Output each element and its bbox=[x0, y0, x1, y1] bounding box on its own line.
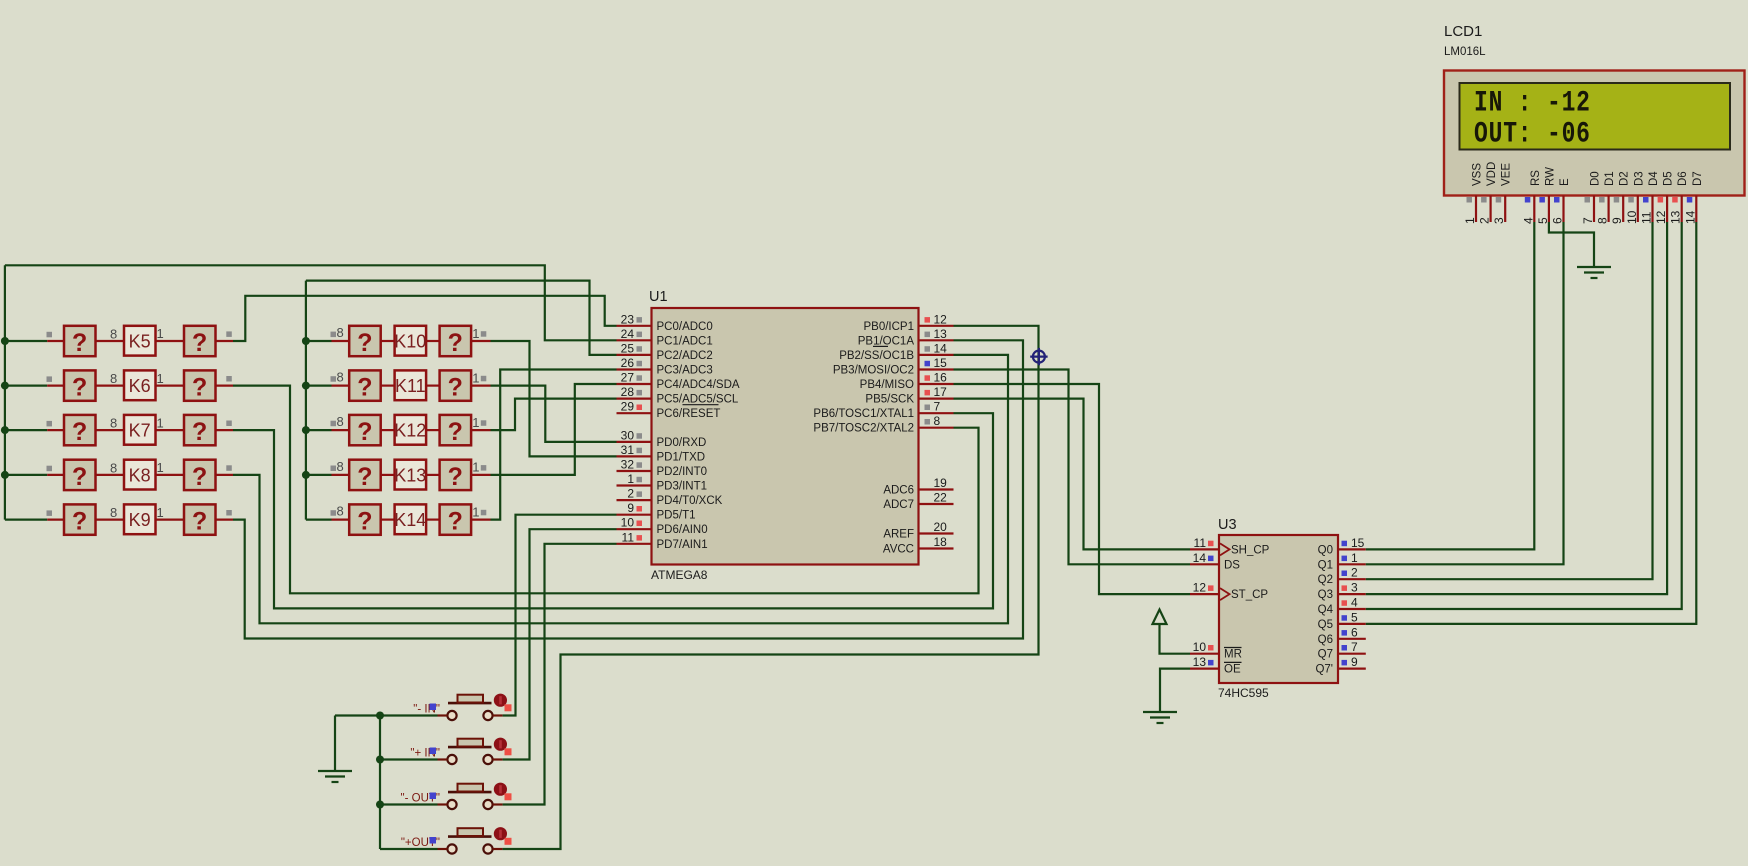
junction button bus bbox=[376, 712, 384, 720]
terminal marker left of K7 bbox=[47, 421, 53, 427]
wire bus2 to K13 row bbox=[306, 474, 332, 476]
svg-text:RS: RS bbox=[1530, 170, 1542, 186]
svg-text:9: 9 bbox=[627, 501, 634, 515]
node button common bus bbox=[379, 716, 381, 850]
svg-text:8: 8 bbox=[110, 416, 117, 431]
U1 pin 27 PC4/ADC4/SDA bbox=[617, 383, 652, 385]
LCD1 pin 5 RW bbox=[1548, 196, 1550, 223]
svg-text:30: 30 bbox=[621, 428, 635, 442]
wire bus2 to U1 pin 25 bbox=[306, 281, 617, 355]
svg-text:Q7': Q7' bbox=[1315, 664, 1333, 676]
svg-text:U3: U3 bbox=[1218, 517, 1237, 533]
svg-text:3: 3 bbox=[1492, 217, 1506, 224]
svg-text:18: 18 bbox=[934, 535, 948, 549]
svg-text:13: 13 bbox=[934, 327, 948, 341]
marker square bbox=[430, 837, 437, 844]
terminal marker left of K14 bbox=[331, 510, 337, 516]
svg-text:15: 15 bbox=[934, 356, 948, 370]
svg-text:ATMEGA8: ATMEGA8 bbox=[651, 568, 708, 582]
U3 pin 3 Q3 bbox=[1338, 593, 1366, 595]
svg-text:22: 22 bbox=[934, 491, 948, 505]
junction bus1 bbox=[1, 337, 9, 345]
svg-text:20: 20 bbox=[934, 520, 948, 534]
wire bus1 to K8 row bbox=[5, 474, 47, 476]
wire bus1 to K5 row bbox=[5, 340, 47, 342]
push button "+ IN" bbox=[448, 746, 492, 749]
svg-text:U1: U1 bbox=[649, 289, 668, 305]
wire K10 internal left bbox=[381, 340, 395, 342]
LCD1 pin 2 VDD bbox=[1489, 196, 1491, 223]
relay K5 output pin stub bbox=[216, 340, 234, 342]
U3 pin 6 Q6 bbox=[1338, 638, 1366, 640]
wire U3 Q2 to LCD D4 bbox=[1366, 222, 1653, 579]
wire U1 pin 15 to U3 DS bbox=[954, 370, 1191, 565]
wire K9 to U1 pin 13 bbox=[233, 340, 1023, 638]
svg-text:LM016L: LM016L bbox=[1444, 46, 1486, 58]
junction bus1 bbox=[1, 382, 9, 390]
LCD1 pin 11 D4 bbox=[1651, 196, 1653, 223]
svg-text:Q6: Q6 bbox=[1318, 634, 1333, 646]
U1 pin 13 PB1/OC1A bbox=[919, 339, 954, 341]
relay K12 bbox=[395, 415, 427, 445]
wire K14 internal right bbox=[426, 518, 440, 520]
svg-text:17: 17 bbox=[934, 385, 948, 399]
svg-text:1: 1 bbox=[472, 326, 479, 341]
svg-text:7: 7 bbox=[1581, 217, 1595, 224]
wire bus to button bbox=[380, 803, 438, 805]
opto element left of K9 bbox=[64, 504, 96, 534]
svg-text:2: 2 bbox=[1351, 566, 1358, 580]
svg-text:K9: K9 bbox=[129, 510, 151, 530]
button right pin stub bbox=[493, 848, 503, 850]
svg-text:1: 1 bbox=[472, 415, 479, 430]
opto element right of K9 bbox=[184, 504, 216, 534]
svg-text:VSS: VSS bbox=[1472, 163, 1484, 186]
svg-text:K11: K11 bbox=[395, 376, 426, 396]
svg-text:DS: DS bbox=[1224, 559, 1240, 571]
svg-text:8: 8 bbox=[110, 505, 117, 520]
relay K10 bbox=[395, 326, 427, 356]
LCD1 pin 12 D5 bbox=[1666, 196, 1668, 223]
relay K14 output pin stub bbox=[471, 518, 490, 520]
relay K6 input pin stub bbox=[47, 385, 64, 387]
relay K7 bbox=[124, 415, 156, 445]
svg-text:PB6/TOSC1/XTAL1: PB6/TOSC1/XTAL1 bbox=[813, 408, 914, 420]
U1 pin 17 PB5/SCK bbox=[919, 398, 954, 400]
svg-text:PC5/ADC5/SCL: PC5/ADC5/SCL bbox=[657, 394, 739, 406]
svg-text:1: 1 bbox=[157, 371, 164, 386]
LCD1 pin 8 D1 bbox=[1607, 196, 1609, 223]
opto element left of K7 bbox=[64, 415, 96, 445]
wire K11 internal left bbox=[381, 385, 395, 387]
U3 pin 1 Q1 bbox=[1338, 563, 1366, 565]
opto element right of K8 bbox=[184, 460, 216, 490]
marker square bbox=[430, 748, 437, 755]
svg-text:K6: K6 bbox=[129, 376, 151, 396]
svg-text:1: 1 bbox=[472, 460, 479, 475]
svg-text:25: 25 bbox=[621, 341, 635, 355]
relay K6 bbox=[124, 370, 156, 400]
svg-text:PC6/RESET: PC6/RESET bbox=[657, 408, 721, 420]
IC U3 body bbox=[1219, 535, 1338, 683]
svg-text:Q2: Q2 bbox=[1318, 574, 1333, 586]
svg-text:K8: K8 bbox=[129, 465, 151, 485]
svg-text:OUT: -06: OUT: -06 bbox=[1474, 117, 1591, 150]
U1 pin 15 PB3/MOSI/OC2 bbox=[919, 368, 954, 370]
svg-text:27: 27 bbox=[621, 371, 635, 385]
junction bus2 bbox=[302, 337, 310, 345]
U1 pin 9 PD5/T1 bbox=[617, 514, 652, 516]
wire bus1 to K6 row bbox=[5, 385, 47, 387]
wire K5 internal right bbox=[156, 340, 185, 342]
U1 pin 18 AVCC bbox=[919, 547, 954, 549]
LCD1 body bbox=[1444, 71, 1745, 196]
svg-text:PD2/INT0: PD2/INT0 bbox=[657, 466, 708, 478]
button left pin stub bbox=[438, 848, 448, 850]
wire K8 internal right bbox=[156, 474, 185, 476]
opto element right of K14 bbox=[440, 504, 472, 534]
svg-text:K12: K12 bbox=[394, 421, 426, 441]
svg-text:D0: D0 bbox=[1590, 171, 1602, 186]
svg-text:32: 32 bbox=[621, 458, 635, 472]
svg-text:D5: D5 bbox=[1663, 171, 1675, 186]
ground symbol U3 OE bbox=[1143, 711, 1177, 713]
relay K11 input pin stub bbox=[332, 385, 350, 387]
svg-text:12: 12 bbox=[934, 312, 948, 326]
U1 pin 24 PC1/ADC1 bbox=[617, 339, 652, 341]
svg-text:10: 10 bbox=[1193, 640, 1207, 654]
svg-text:7: 7 bbox=[1351, 640, 1358, 654]
LCD1 pin 6 E bbox=[1562, 196, 1564, 223]
wire K12 to U1 pin 28 bbox=[491, 399, 617, 431]
wire bus to button bbox=[380, 758, 438, 760]
wire K10 to U1 pin 31 bbox=[491, 341, 617, 456]
wire bus to button bbox=[380, 848, 438, 850]
svg-text:14: 14 bbox=[1683, 210, 1697, 224]
wire U3 Q1 to LCD E bbox=[1366, 222, 1564, 564]
U3 pin 10 MR bbox=[1190, 653, 1219, 655]
svg-text:OE: OE bbox=[1224, 664, 1241, 676]
terminal marker left of K10 bbox=[331, 332, 337, 338]
svg-text:Q4: Q4 bbox=[1318, 604, 1334, 616]
LCD1 pin 13 D6 bbox=[1681, 196, 1683, 223]
marker square bbox=[430, 793, 437, 800]
wire U1 pin 17 to U3 SH_CP bbox=[954, 399, 1191, 550]
svg-text:12: 12 bbox=[1193, 581, 1207, 595]
svg-text:PC0/ADC0: PC0/ADC0 bbox=[657, 321, 713, 333]
svg-text:ADC6: ADC6 bbox=[883, 485, 914, 497]
relay K5 bbox=[124, 326, 156, 356]
wire bus2 to K12 row bbox=[306, 429, 332, 431]
opto element right of K13 bbox=[440, 460, 472, 490]
terminal marker right of K9 bbox=[226, 510, 232, 516]
wire button bus to ground bbox=[335, 714, 380, 716]
wire bus1 to K7 row bbox=[5, 429, 47, 431]
node bus2 (left common rail of K10-K14) bbox=[305, 281, 307, 520]
terminal marker right of K7 bbox=[226, 421, 232, 427]
wire K12 internal left bbox=[381, 429, 395, 431]
svg-text:PB1/OC1A: PB1/OC1A bbox=[858, 335, 915, 347]
relay K13 input pin stub bbox=[332, 474, 350, 476]
svg-text:PD6/AIN0: PD6/AIN0 bbox=[657, 524, 708, 536]
opto element left of K6 bbox=[64, 370, 96, 400]
U1 pin 16 PB4/MISO bbox=[919, 383, 954, 385]
wire button +OUT to U1 pin 12 bbox=[503, 326, 1039, 849]
svg-text:?: ? bbox=[72, 329, 87, 357]
wire K12 internal right bbox=[426, 429, 440, 431]
origin marker crosshair bbox=[1033, 351, 1045, 363]
svg-text:4: 4 bbox=[1351, 596, 1358, 610]
U1 pin 28 PC5/ADC5/SCL bbox=[617, 398, 652, 400]
U1 pin 7 PB6/TOSC1/XTAL1 bbox=[919, 412, 954, 414]
wire K14 to U1 pin 26 bbox=[491, 370, 617, 520]
U1 pin 23 PC0/ADC0 bbox=[617, 325, 652, 327]
svg-text:VDD: VDD bbox=[1486, 162, 1498, 186]
U1 pin 31 PD1/TXD bbox=[617, 455, 652, 457]
relay K8 input pin stub bbox=[47, 474, 64, 476]
svg-text:?: ? bbox=[192, 508, 207, 536]
relay K7 input pin stub bbox=[47, 429, 64, 431]
terminal marker left of K12 bbox=[331, 421, 337, 427]
wire U3 Q5 to LCD D7 bbox=[1366, 222, 1697, 624]
relay K14 input pin stub bbox=[332, 518, 350, 520]
relay K13 output pin stub bbox=[471, 474, 490, 476]
svg-text:8: 8 bbox=[110, 327, 117, 342]
wire K5 internal left bbox=[96, 340, 125, 342]
wire K13 internal left bbox=[381, 474, 395, 476]
U1 pin 8 PB7/TOSC2/XTAL2 bbox=[919, 427, 954, 429]
U1 pin 11 PD7/AIN1 bbox=[617, 543, 652, 545]
svg-text:?: ? bbox=[448, 463, 463, 491]
svg-text:13: 13 bbox=[1669, 210, 1683, 224]
ground symbol buttons bbox=[318, 770, 352, 772]
U1 pin 12 PB0/ICP1 bbox=[919, 325, 954, 327]
terminal marker right of K12 bbox=[481, 420, 487, 426]
U1 pin 32 PD2/INT0 bbox=[617, 470, 652, 472]
wire K8 internal left bbox=[96, 474, 125, 476]
svg-text:5: 5 bbox=[1351, 610, 1358, 624]
relay K5 input pin stub bbox=[47, 340, 64, 342]
opto element left of K11 bbox=[349, 370, 381, 400]
relay K6 output pin stub bbox=[216, 385, 234, 387]
svg-text:6: 6 bbox=[1351, 625, 1358, 639]
U1 pin 20 AREF bbox=[919, 532, 954, 534]
svg-text:PB3/MOSI/OC2: PB3/MOSI/OC2 bbox=[833, 365, 914, 377]
wire button +IN to U1 pin 10 bbox=[503, 529, 617, 759]
svg-text:PD7/AIN1: PD7/AIN1 bbox=[657, 539, 708, 551]
wire bus1 to U1 pin 24 bbox=[5, 265, 617, 340]
svg-text:D3: D3 bbox=[1633, 171, 1645, 186]
svg-text:PD0/RXD: PD0/RXD bbox=[657, 437, 707, 449]
wire U3 OE to ground bbox=[1160, 669, 1190, 712]
junction button bus bbox=[376, 756, 384, 764]
svg-text:LCD1: LCD1 bbox=[1444, 23, 1482, 40]
marker square bbox=[430, 704, 437, 711]
LCD1 pin 4 RS bbox=[1533, 196, 1535, 223]
U1 pin 19 ADC6 bbox=[919, 488, 954, 490]
wire U3 Q4 to LCD D6 bbox=[1366, 222, 1682, 609]
button right pin stub bbox=[493, 714, 503, 716]
svg-text:10: 10 bbox=[621, 516, 635, 530]
U1 pin 30 PD0/RXD bbox=[617, 441, 652, 443]
wire K9 internal left bbox=[96, 518, 125, 520]
relay K11 output pin stub bbox=[471, 385, 490, 387]
wire K11 internal right bbox=[426, 385, 440, 387]
button right pin stub bbox=[493, 803, 503, 805]
svg-text:8: 8 bbox=[337, 504, 344, 519]
U3 pin 11 SH_CP bbox=[1190, 548, 1219, 550]
clock marker SH_CP bbox=[1220, 543, 1230, 555]
wire K13 to U1 pin 27 bbox=[491, 384, 617, 475]
wire U3 MR to power bbox=[1160, 624, 1191, 654]
svg-text:PB2/SS/OC1B: PB2/SS/OC1B bbox=[839, 350, 914, 362]
svg-text:Q7: Q7 bbox=[1318, 649, 1333, 661]
svg-text:?: ? bbox=[448, 508, 463, 536]
svg-text:?: ? bbox=[192, 329, 207, 357]
svg-text:?: ? bbox=[448, 329, 463, 357]
svg-text:K7: K7 bbox=[129, 421, 151, 441]
svg-text:?: ? bbox=[357, 508, 372, 536]
U1 pin 22 ADC7 bbox=[919, 503, 954, 505]
U3 pin 13 OE bbox=[1190, 667, 1219, 669]
svg-text:ST_CP: ST_CP bbox=[1231, 589, 1268, 601]
wire LCD RW to ground bbox=[1549, 222, 1594, 267]
svg-text:PD5/T1: PD5/T1 bbox=[657, 510, 696, 522]
wire K7 to U1 pin 7 bbox=[233, 413, 993, 608]
svg-text:1: 1 bbox=[472, 504, 479, 519]
svg-text:ADC7: ADC7 bbox=[883, 499, 914, 511]
opto element left of K5 bbox=[64, 326, 96, 356]
svg-text:31: 31 bbox=[621, 443, 635, 457]
svg-text:K5: K5 bbox=[129, 332, 151, 352]
svg-text:PD1/TXD: PD1/TXD bbox=[657, 451, 706, 463]
LCD1 pin 3 VEE bbox=[1504, 196, 1506, 223]
wire K6 internal left bbox=[96, 385, 125, 387]
svg-text:PD4/T0/XCK: PD4/T0/XCK bbox=[657, 495, 723, 507]
svg-text:14: 14 bbox=[1193, 551, 1207, 565]
U1 pin 29 PC6/RESET bbox=[617, 412, 652, 414]
terminal marker left of K11 bbox=[331, 376, 337, 382]
relay K12 output pin stub bbox=[471, 429, 490, 431]
junction button bus bbox=[376, 801, 384, 809]
U3 pin 9 Q7' bbox=[1338, 667, 1366, 669]
wire bus to button bbox=[380, 714, 438, 716]
svg-text:?: ? bbox=[192, 463, 207, 491]
svg-text:11: 11 bbox=[1194, 536, 1207, 550]
terminal marker left of K8 bbox=[47, 466, 53, 472]
U3 pin 5 Q5 bbox=[1338, 623, 1366, 625]
svg-text:15: 15 bbox=[1351, 536, 1365, 550]
relay K14 bbox=[395, 504, 427, 534]
terminal marker left of K13 bbox=[331, 466, 337, 472]
svg-text:D7: D7 bbox=[1692, 171, 1704, 186]
svg-text:PC4/ADC4/SDA: PC4/ADC4/SDA bbox=[657, 379, 740, 391]
svg-text:?: ? bbox=[357, 463, 372, 491]
clock marker ST_CP bbox=[1220, 588, 1230, 600]
LCD1 pin 10 D3 bbox=[1637, 196, 1639, 223]
relay K12 input pin stub bbox=[332, 429, 350, 431]
relay K10 input pin stub bbox=[332, 340, 350, 342]
svg-text:PB0/ICP1: PB0/ICP1 bbox=[864, 321, 915, 333]
svg-text:?: ? bbox=[357, 329, 372, 357]
wire K7 internal left bbox=[96, 429, 125, 431]
relay K10 output pin stub bbox=[471, 340, 490, 342]
svg-text:23: 23 bbox=[621, 312, 635, 326]
wire bus2 to K10 row bbox=[306, 340, 332, 342]
relay K7 output pin stub bbox=[216, 429, 234, 431]
svg-text:E: E bbox=[1559, 178, 1571, 186]
svg-text:13: 13 bbox=[1193, 655, 1207, 669]
svg-text:1: 1 bbox=[627, 472, 634, 486]
opto element right of K12 bbox=[440, 415, 472, 445]
svg-text:?: ? bbox=[357, 418, 372, 446]
svg-text:PC1/ADC1: PC1/ADC1 bbox=[657, 335, 713, 347]
opto element left of K8 bbox=[64, 460, 96, 490]
svg-text:SH_CP: SH_CP bbox=[1231, 544, 1270, 556]
button actuator "+ IN" bbox=[494, 738, 507, 751]
junction bus1 bbox=[1, 426, 9, 434]
U1 pin 10 PD6/AIN0 bbox=[617, 528, 652, 530]
svg-text:19: 19 bbox=[934, 476, 948, 490]
svg-text:8: 8 bbox=[337, 370, 344, 385]
svg-text:?: ? bbox=[72, 374, 87, 402]
svg-text:8: 8 bbox=[337, 459, 344, 474]
svg-text:1: 1 bbox=[157, 505, 164, 520]
U3 pin 15 Q0 bbox=[1338, 548, 1366, 550]
svg-text:26: 26 bbox=[621, 356, 635, 370]
svg-text:MR: MR bbox=[1224, 649, 1242, 661]
svg-text:8: 8 bbox=[337, 325, 344, 340]
svg-text:K13: K13 bbox=[394, 465, 426, 485]
svg-text:AREF: AREF bbox=[883, 529, 914, 541]
svg-text:10: 10 bbox=[1625, 210, 1639, 224]
U1 pin 1 PD3/INT1 bbox=[617, 484, 652, 486]
terminal marker right of K13 bbox=[481, 465, 487, 471]
ground symbol LCD RW bbox=[1577, 266, 1611, 268]
svg-text:1: 1 bbox=[472, 370, 479, 385]
svg-text:?: ? bbox=[357, 374, 372, 402]
button actuator "- OUT" bbox=[494, 783, 507, 796]
opto element right of K10 bbox=[440, 326, 472, 356]
wire K7 internal right bbox=[156, 429, 185, 431]
svg-text:14: 14 bbox=[934, 341, 948, 355]
U3 pin 4 Q4 bbox=[1338, 608, 1366, 610]
svg-text:8: 8 bbox=[1596, 217, 1610, 224]
wire K10 internal right bbox=[426, 340, 440, 342]
svg-text:Q3: Q3 bbox=[1318, 589, 1333, 601]
U3 pin 12 ST_CP bbox=[1190, 593, 1219, 595]
svg-text:?: ? bbox=[448, 374, 463, 402]
junction bus2 bbox=[302, 426, 310, 434]
svg-text:29: 29 bbox=[621, 400, 635, 414]
button right pin stub bbox=[493, 758, 503, 760]
svg-text:?: ? bbox=[72, 418, 87, 446]
wire U1 pin 16 to U3 ST_CP bbox=[954, 384, 1191, 594]
wire bus1 to K9 row bbox=[5, 518, 47, 520]
IC U1 body bbox=[652, 308, 919, 565]
wire K14 internal left bbox=[381, 518, 395, 520]
opto element right of K11 bbox=[440, 370, 472, 400]
svg-text:K10: K10 bbox=[394, 332, 426, 352]
LCD1 pin 7 D0 bbox=[1593, 196, 1595, 223]
opto element left of K14 bbox=[349, 504, 381, 534]
opto element left of K10 bbox=[349, 326, 381, 356]
opto element right of K5 bbox=[184, 326, 216, 356]
wire button -OUT to U1 pin 11 bbox=[503, 544, 617, 805]
wire K8 to U1 pin 14 bbox=[233, 355, 1008, 623]
relay K8 bbox=[124, 460, 156, 490]
svg-text:8: 8 bbox=[337, 414, 344, 429]
